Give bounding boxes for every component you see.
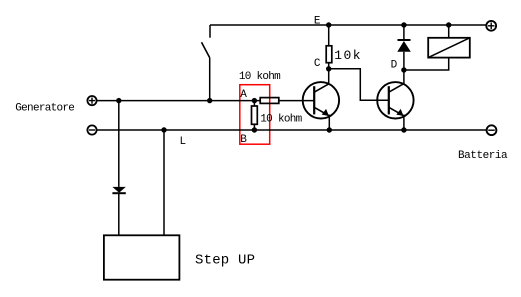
wire C to Q2 base (329, 69, 389, 101)
svg-text:10 kohm: 10 kohm (239, 71, 281, 83)
switch S1 blade (202, 42, 210, 57)
node step-up branch on plus rail (116, 98, 121, 103)
node Q1 emitter on minus rail (327, 127, 332, 132)
wire top rail (210, 24, 486, 26)
wire minus rail (97, 129, 486, 131)
wire R3 to C (328, 63, 330, 84)
wire D1 to node D (403, 52, 405, 84)
svg-text:Step UP: Step UP (195, 252, 255, 268)
wire node D to relay bottom (404, 58, 449, 70)
wire switch upper stub (209, 25, 211, 38)
diode D1 (397, 40, 411, 52)
transistor Q2 (377, 82, 413, 130)
svg-text:Generatore: Generatore (15, 102, 74, 114)
wire step-up right branch (163, 130, 165, 235)
resistor R1 10 kohm (series, horizontal) (260, 98, 279, 104)
wire top rail to D1 (403, 25, 405, 40)
node relay on top rail (446, 22, 451, 27)
svg-text:Batteria: Batteria (458, 150, 508, 162)
node Q2 emitter on minus rail (401, 127, 406, 132)
svg-text:10k: 10k (334, 48, 362, 63)
resistor R2 10 kohm (A-B, vertical) (252, 106, 258, 124)
node D (401, 67, 406, 72)
battery plus terminal (486, 21, 496, 31)
battery minus terminal (487, 125, 497, 135)
step-up converter box (104, 235, 179, 279)
relay K1 coil (428, 38, 470, 58)
node C (326, 66, 331, 71)
node B (252, 127, 257, 132)
resistor R3 10k (vertical) (326, 46, 332, 63)
node diode branch on top rail (401, 22, 406, 27)
node E (326, 22, 331, 27)
wire E to R3 (328, 25, 330, 46)
wire switch to plus rail (209, 58, 211, 101)
generator minus terminal (87, 125, 96, 134)
wire plus rail (97, 100, 260, 102)
node L (161, 127, 166, 132)
wire step-up left branch upper (118, 101, 120, 187)
wire A to R2 (253, 101, 255, 106)
svg-text:L: L (180, 136, 186, 148)
wire step-up left branch lower (118, 193, 120, 235)
transistor Q1 (303, 82, 339, 130)
wire resistor to Q1 base (279, 100, 314, 102)
node A (252, 98, 257, 103)
generator plus terminal (87, 96, 96, 105)
highlight box (red) around R network A-B (240, 85, 270, 145)
wire top rail to relay (448, 25, 450, 38)
diode D2 (to step-up) (112, 187, 125, 193)
wire R2 to B (253, 124, 255, 130)
node switch junction (207, 98, 212, 103)
svg-text:10 kohm: 10 kohm (260, 114, 302, 126)
